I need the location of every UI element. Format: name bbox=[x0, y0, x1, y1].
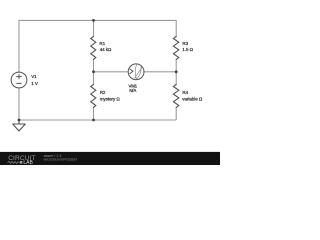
svg-text:mystery Ω: mystery Ω bbox=[100, 96, 121, 101]
svg-text:R4: R4 bbox=[182, 90, 188, 95]
svg-text:V1: V1 bbox=[31, 74, 37, 79]
svg-text:R1: R1 bbox=[99, 41, 105, 46]
svg-text:R3: R3 bbox=[182, 41, 188, 46]
svg-text:variable Ω: variable Ω bbox=[182, 96, 203, 101]
svg-text:1.5 Ω: 1.5 Ω bbox=[182, 47, 193, 52]
svg-text:www.circuitlab.com/c6m4u15pddp: www.circuitlab.com/c6m4u15pddpkrn bbox=[44, 157, 78, 161]
svg-text:R2: R2 bbox=[100, 90, 106, 95]
svg-text:44 kΩ: 44 kΩ bbox=[100, 47, 112, 52]
svg-text:LAB: LAB bbox=[23, 160, 33, 165]
svg-text:1 V: 1 V bbox=[31, 81, 38, 86]
svg-text:N/A: N/A bbox=[129, 88, 136, 93]
